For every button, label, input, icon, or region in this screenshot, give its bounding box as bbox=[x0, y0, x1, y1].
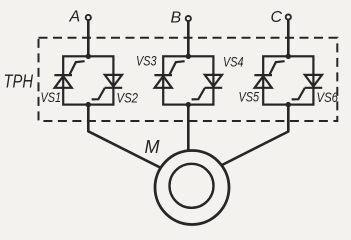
svg-text:A: A bbox=[69, 9, 81, 26]
svg-text:M: M bbox=[145, 137, 160, 157]
svg-text:B: B bbox=[171, 10, 182, 27]
svg-text:C: C bbox=[271, 9, 283, 26]
svg-text:VS2: VS2 bbox=[117, 90, 139, 106]
svg-text:VS1: VS1 bbox=[41, 89, 62, 105]
svg-text:VS4: VS4 bbox=[223, 54, 244, 70]
svg-text:VS5: VS5 bbox=[239, 89, 260, 105]
svg-text:ТРН: ТРН bbox=[4, 72, 34, 92]
svg-text:VS6: VS6 bbox=[317, 89, 339, 105]
svg-text:VS3: VS3 bbox=[136, 53, 157, 69]
